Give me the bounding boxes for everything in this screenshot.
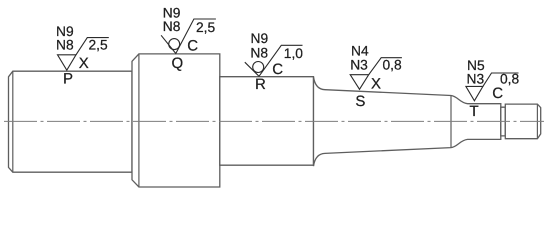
- svg-text:P: P: [63, 71, 73, 88]
- svg-text:X: X: [371, 75, 381, 92]
- svg-text:X: X: [79, 55, 89, 72]
- svg-text:T: T: [470, 103, 479, 120]
- svg-text:N9: N9: [251, 31, 269, 46]
- svg-text:N3: N3: [467, 72, 485, 87]
- svg-text:R: R: [255, 76, 266, 93]
- svg-text:C: C: [492, 85, 503, 102]
- svg-text:N8: N8: [56, 37, 74, 52]
- svg-text:N8: N8: [250, 46, 268, 61]
- svg-text:0,8: 0,8: [383, 58, 403, 73]
- svg-text:Q: Q: [172, 55, 184, 72]
- svg-text:N4: N4: [351, 43, 369, 58]
- svg-text:2,5: 2,5: [89, 37, 109, 52]
- svg-text:C: C: [187, 38, 198, 55]
- svg-text:N8: N8: [163, 19, 181, 34]
- svg-text:1,0: 1,0: [284, 46, 304, 61]
- svg-text:C: C: [272, 61, 283, 78]
- svg-text:S: S: [355, 93, 365, 110]
- svg-text:2,5: 2,5: [196, 20, 216, 35]
- svg-text:N3: N3: [350, 58, 368, 73]
